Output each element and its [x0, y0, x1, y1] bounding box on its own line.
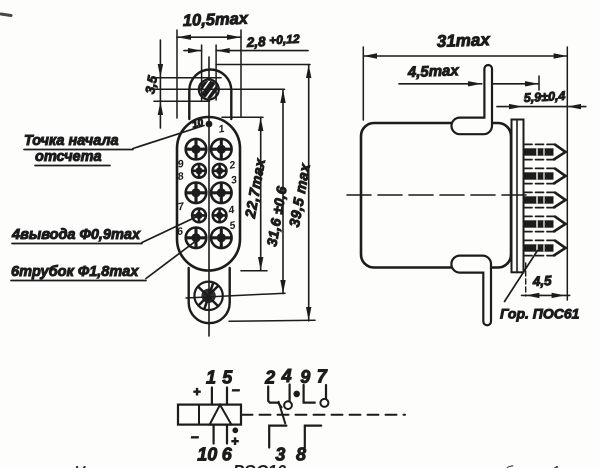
- svg-text:2,8 +0,12: 2,8 +0,12: [245, 32, 300, 50]
- tab hole hatch: [198, 77, 221, 101]
- svg-text:6: 6: [222, 445, 233, 465]
- stray scan mark top-left: [1, 14, 11, 16]
- contact: pin3 lead: [269, 426, 286, 448]
- ear hole: [194, 282, 222, 310]
- top mounting bracket: [451, 65, 492, 134]
- coil box: [178, 405, 241, 425]
- svg-text:4: 4: [227, 204, 236, 217]
- svg-text:4вывода Ф0,9max: 4вывода Ф0,9max: [11, 227, 141, 243]
- side view pin row 1: [524, 144, 566, 159]
- svg-text:7: 7: [317, 367, 328, 387]
- tube pin 1 (front view): [211, 139, 232, 160]
- svg-text:31,6 ±0,6: 31,6 ±0,6: [263, 185, 289, 248]
- svg-text:3,5: 3,5: [142, 74, 160, 95]
- wire pin5 stub: [226, 388, 228, 405]
- side view pin row 4: [524, 216, 566, 231]
- svg-text:1: 1: [218, 123, 226, 136]
- extension arch top: [216, 64, 310, 66]
- leader to small pin: [142, 217, 196, 243]
- svg-text:5: 5: [222, 368, 233, 388]
- svg-text:9: 9: [300, 367, 310, 387]
- svg-text:9: 9: [177, 158, 185, 171]
- lead pin 4 (front view): [213, 209, 227, 223]
- dimension 22,7max: [260, 117, 262, 271]
- svg-text:2: 2: [227, 159, 236, 172]
- svg-text:+: +: [193, 384, 201, 399]
- side view pin row 2: [524, 168, 566, 183]
- svg-text:1: 1: [206, 368, 216, 388]
- pin numbers (front view): [176, 123, 238, 238]
- movable arm pin3: [279, 402, 286, 424]
- svg-text:Гор. ПОС61: Гор. ПОС61: [500, 306, 580, 322]
- contact: pin2 lead: [268, 387, 281, 408]
- svg-text:8: 8: [296, 444, 306, 464]
- svg-text:4: 4: [281, 366, 292, 386]
- reference point dot: [206, 121, 213, 128]
- svg-text:4,5max: 4,5max: [407, 62, 460, 81]
- svg-text:5,9±0,4: 5,9±0,4: [523, 89, 565, 105]
- svg-text:не: не: [299, 463, 315, 468]
- contact: pin4 lead + contact circle: [289, 385, 291, 401]
- svg-text:31max: 31max: [436, 30, 491, 51]
- svg-text:10,5max: 10,5max: [183, 10, 250, 30]
- axis center line (front view): [208, 57, 210, 336]
- contact: pin7 lead + contact circle: [325, 385, 327, 399]
- extension body top: [222, 116, 263, 118]
- leader to reference point: [133, 126, 204, 149]
- relay body outline (stadium): [177, 117, 240, 271]
- svg-text:переч: переч: [428, 463, 466, 468]
- side view pin row 5: [524, 240, 566, 255]
- svg-text:3: 3: [230, 174, 238, 187]
- flange plate: [512, 120, 524, 273]
- coil divider: [198, 405, 200, 425]
- tube pin 5 (front view): [211, 228, 232, 249]
- wire pin1 stub: [211, 388, 213, 405]
- bottom mounting bracket: [451, 256, 491, 326]
- svg-text:10: 10: [197, 445, 217, 465]
- contact: pin9 lead: [304, 385, 315, 403]
- ear hole center line: [186, 293, 285, 298]
- leader Гор. ПОС61: [505, 251, 538, 302]
- side view pin row 3: [524, 192, 566, 207]
- svg-text:Точка начала: Точка начала: [24, 133, 119, 149]
- wire pin10 stub: [213, 425, 215, 444]
- ear hole cross hatch: [199, 284, 219, 309]
- junction dot: [293, 391, 300, 398]
- clipped caption text at bottom edge: [74, 463, 567, 468]
- dimension 39,5max: [308, 65, 310, 321]
- leader to tube pin: [146, 242, 195, 279]
- polarized coil triangle: [210, 405, 232, 425]
- svg-text:2: 2: [264, 368, 275, 388]
- svg-text:3: 3: [275, 445, 285, 465]
- tab hole Ø3,5: [199, 80, 219, 100]
- svg-text:5: 5: [229, 219, 237, 232]
- svg-text:лее: лее: [525, 463, 550, 468]
- relay can body: [361, 123, 511, 268]
- lead pin 2 (front view): [213, 164, 227, 178]
- lead pin 9 (front view): [192, 164, 206, 178]
- svg-text:22,7max: 22,7max: [243, 157, 269, 220]
- svg-text:отсчета: отсчета: [35, 149, 102, 165]
- mounting ear bottom: [189, 268, 230, 323]
- svg-text:РЭС10: РЭС10: [233, 463, 287, 468]
- svg-text:6трубок Ф1,8max: 6трубок Ф1,8max: [11, 264, 139, 280]
- svg-text:–: –: [191, 428, 199, 444]
- svg-text:39,5 max: 39,5 max: [287, 162, 314, 229]
- tube pin 6 (front view): [186, 228, 207, 249]
- svg-text:6: 6: [176, 225, 184, 238]
- dimension 31,6±0,6: [282, 89, 284, 293]
- svg-text:не: не: [484, 463, 500, 468]
- tube pin 3 (front view): [211, 183, 232, 204]
- dimension 31max: [362, 47, 364, 120]
- svg-text:8: 8: [177, 170, 185, 183]
- contact: pin8 lead: [305, 426, 321, 448]
- center dash-line: [347, 194, 527, 196]
- svg-text:4,5: 4,5: [531, 273, 552, 289]
- svg-text:+: +: [231, 434, 239, 449]
- tube pin 8 (front view): [186, 183, 207, 204]
- mounting tab top: [189, 70, 231, 119]
- svg-text:1г: 1г: [552, 463, 567, 468]
- extension ear bottom: [229, 320, 315, 321]
- wire pin6 stub: [226, 425, 228, 444]
- extension body bottom: [241, 270, 267, 272]
- lead pin 7 (front view): [192, 209, 206, 223]
- svg-text:–: –: [232, 381, 240, 397]
- svg-text:7: 7: [177, 200, 186, 213]
- svg-text:Масс: Масс: [74, 463, 108, 468]
- mechanical link dashed: [242, 414, 406, 416]
- tube pin 10 (front view): [186, 139, 207, 160]
- svg-text:бо: бо: [505, 463, 521, 468]
- svg-text:и: и: [159, 463, 167, 468]
